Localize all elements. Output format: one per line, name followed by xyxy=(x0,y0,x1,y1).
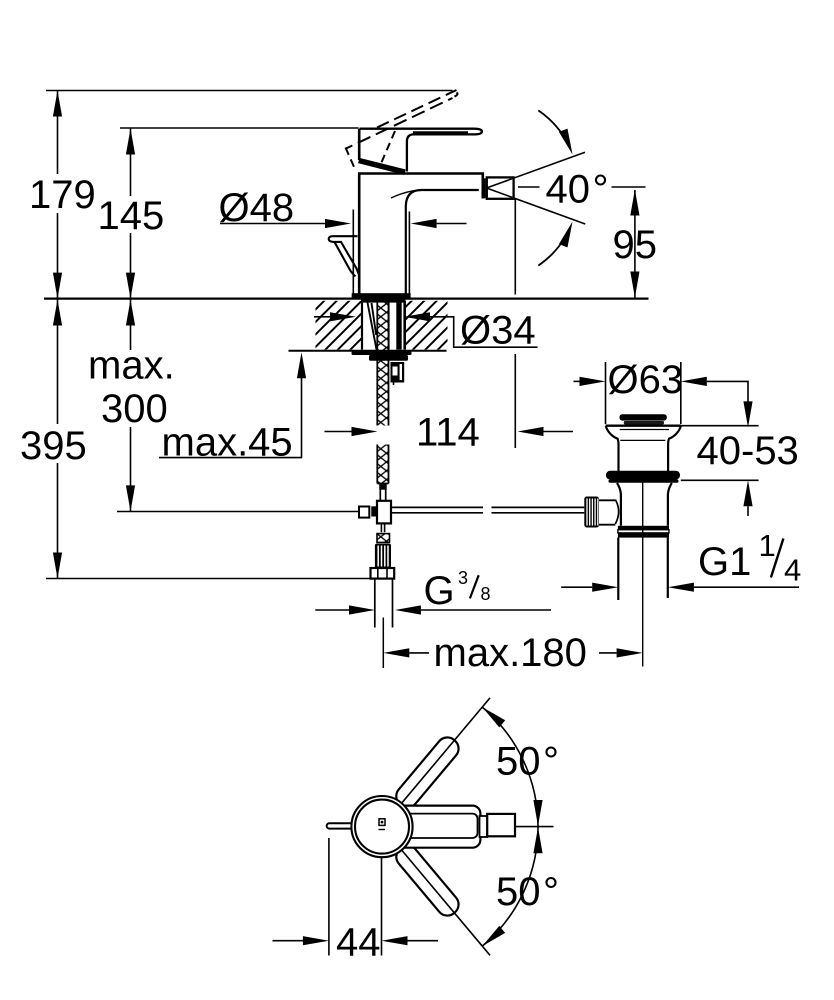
plan: 50deg ray upper xyxy=(402,698,490,803)
flange plate under slab xyxy=(352,351,412,355)
slab bottom line xyxy=(289,350,447,352)
mounting hole right wall xyxy=(403,301,406,350)
curved arrow lower (40deg) xyxy=(538,241,562,265)
mounting hole left wall xyxy=(361,301,363,350)
svg-text:3: 3 xyxy=(458,568,468,588)
knurl piece xyxy=(377,534,390,543)
svg-text:114: 114 xyxy=(416,411,480,455)
extension line top (179) xyxy=(46,90,453,92)
base plinth xyxy=(352,293,411,298)
plan: spout neck step xyxy=(480,816,488,837)
pop-up rod lever at body left xyxy=(329,236,359,274)
waste valve flange (black) xyxy=(606,471,680,480)
plan: cartridge detail xyxy=(379,819,385,826)
svg-text:max.180: max.180 xyxy=(434,631,587,675)
svg-text:4: 4 xyxy=(784,553,801,588)
dashed raised handle back edge xyxy=(346,98,453,149)
svg-text:145: 145 xyxy=(98,194,165,238)
dimension 44 xyxy=(329,838,382,956)
adjustment cylinder (knurled) xyxy=(375,544,391,568)
bolt washer line xyxy=(388,301,390,350)
faucet body outline xyxy=(359,174,483,294)
inner water-channel curve xyxy=(391,190,421,198)
Ø48 extension / skirt line right xyxy=(408,212,410,294)
dimension max.300 xyxy=(130,300,132,512)
waste valve flared neck xyxy=(606,426,619,471)
waste valve knob xyxy=(620,414,667,420)
label Ø34 with leader xyxy=(330,312,356,321)
union nut xyxy=(618,526,669,530)
svg-text:G: G xyxy=(424,569,455,613)
reference line 395 bottom xyxy=(46,578,390,580)
flange nut xyxy=(369,355,408,361)
label 40deg xyxy=(518,186,540,188)
plan: aerator xyxy=(487,814,515,836)
side knob stem xyxy=(599,500,615,524)
hose tail below T xyxy=(381,523,384,532)
rod guide bracket xyxy=(391,362,405,383)
spout projection line xyxy=(514,199,516,448)
dimension 40-53 xyxy=(743,401,752,427)
braided hose upper segment xyxy=(377,301,388,426)
dashed raised handle front edge xyxy=(377,90,457,128)
plan: spout inner outline xyxy=(399,814,478,838)
deck line xyxy=(44,298,649,300)
anchor wedge xyxy=(367,302,376,351)
svg-text:300: 300 xyxy=(101,387,168,431)
aerator box xyxy=(487,177,514,198)
side knob (knurled) xyxy=(584,497,599,528)
dimension 395 xyxy=(57,300,59,579)
extension line handle level (145) xyxy=(120,127,359,129)
spout underside xyxy=(406,190,479,294)
plan: handle lever lower (50deg) xyxy=(392,841,463,919)
hose end fitting xyxy=(380,484,385,502)
hatch right block xyxy=(406,301,448,350)
dimension 95 xyxy=(634,190,636,298)
dimension G1 1/4 xyxy=(561,586,592,588)
plan: handle lever upper (50deg) xyxy=(392,733,463,811)
svg-text:G1: G1 xyxy=(698,540,751,584)
cartridge dome (thick diagonal) xyxy=(359,161,405,173)
Ø48 extension / skirt line left xyxy=(352,210,354,294)
horizontal pop-up rod xyxy=(391,507,584,512)
plan: 50deg arc xyxy=(482,707,538,946)
svg-text:40-53: 40-53 xyxy=(697,429,799,473)
reference line rod level xyxy=(117,511,359,513)
handle lever (solid) xyxy=(360,129,482,172)
svg-text:1: 1 xyxy=(759,528,776,563)
plan: 50deg ray lower xyxy=(402,850,490,955)
dashed handle lower-left corner xyxy=(346,148,355,169)
dimension 145 xyxy=(130,129,132,299)
svg-text:95: 95 xyxy=(613,223,658,267)
handle base left edge xyxy=(358,129,361,160)
braided hose lower segment xyxy=(377,445,388,484)
svg-text:44: 44 xyxy=(336,921,381,965)
plan: pop-up rod pin xyxy=(327,823,356,828)
svg-text:395: 395 xyxy=(20,424,87,468)
mounting bolt (black) xyxy=(396,301,401,350)
hatch left block xyxy=(316,301,363,350)
curved arrow upper (40deg) xyxy=(538,110,562,134)
G3/8 hex nut xyxy=(371,568,395,579)
svg-text:8: 8 xyxy=(481,584,491,604)
svg-text:50: 50 xyxy=(496,870,541,914)
plan: faucet body inner circle xyxy=(355,800,409,854)
svg-text:°: ° xyxy=(543,870,559,914)
rim inner lines xyxy=(620,430,669,441)
svg-text:max.: max. xyxy=(88,344,175,388)
svg-text:Ø63: Ø63 xyxy=(608,358,684,402)
waste valve rim top xyxy=(606,425,681,427)
40-degree spray rays xyxy=(487,152,586,224)
supply pipe xyxy=(375,579,393,628)
supply pipe axis xyxy=(382,618,384,669)
valve axis line xyxy=(642,482,644,667)
pop-up rod T-fitting xyxy=(359,507,369,518)
dashed hidden edge inside base xyxy=(381,131,395,164)
svg-text:50: 50 xyxy=(496,740,541,784)
dashed handle tip xyxy=(454,93,458,98)
aerator connector (black) xyxy=(482,178,486,198)
dimension max.180 xyxy=(383,648,409,657)
valve body below flange xyxy=(617,483,621,526)
svg-text:40: 40 xyxy=(546,167,591,211)
tailpipe G1 1/4 xyxy=(618,538,668,600)
svg-text:Ø34: Ø34 xyxy=(460,309,536,353)
plan: spout xyxy=(390,806,480,848)
dimension G3/8 xyxy=(315,609,349,611)
plan: escutcheon outer circle xyxy=(351,796,412,857)
svg-text:°: ° xyxy=(543,740,559,784)
dimension 179 xyxy=(57,91,59,299)
dimension Ø63 xyxy=(606,362,681,424)
seal band under deck xyxy=(361,299,406,303)
handle lever underside shading xyxy=(413,131,468,134)
svg-text:179: 179 xyxy=(29,173,96,217)
plan: horizontal axis line xyxy=(515,826,554,828)
svg-text:°: ° xyxy=(593,167,609,211)
